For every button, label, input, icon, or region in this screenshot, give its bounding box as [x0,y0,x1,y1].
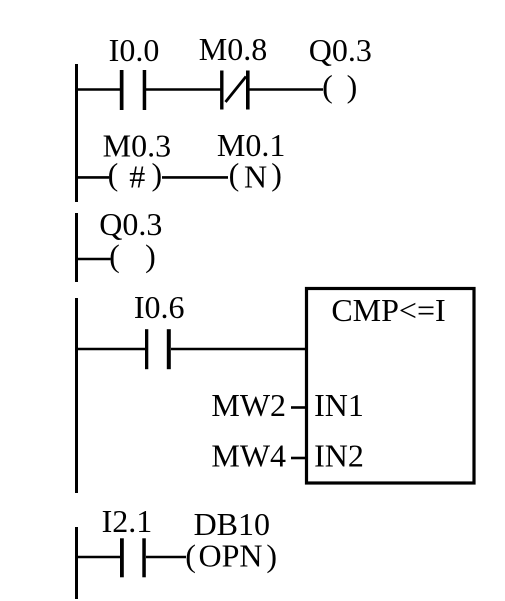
coil DB10 (OPN) [185,537,277,573]
svg-text:IN2: IN2 [314,438,364,474]
label MW2 [211,387,286,423]
wire rung1 rail to contact I0.0 [75,88,120,91]
compare box CMP<=I [307,289,475,484]
svg-text:MW2: MW2 [211,387,286,423]
svg-text:N: N [244,159,267,195]
pin label IN1 [314,387,364,423]
svg-text:#: # [129,159,145,195]
pin label IN2 [314,438,364,474]
label Q0.3 rung3 [99,206,162,242]
label M0.1 [217,127,285,163]
wire rung1 M0.8 to coil Q0.3 [250,88,324,91]
svg-text:Q0.3: Q0.3 [99,206,162,242]
coil M0.1 ( N ) [229,156,282,194]
label MW4 [211,438,286,474]
label M0.8 [199,31,267,67]
left power rail segment 1 [75,64,78,202]
coil M0.3 ( # ) [108,156,162,194]
wire rung5 I2.1 to coil DB10 [146,556,186,559]
contact I0.6 (normally open) [145,329,171,369]
svg-text:): ) [266,537,277,573]
svg-text:(: ( [185,537,196,573]
svg-text:M0.1: M0.1 [217,127,285,163]
svg-text:I0.0: I0.0 [109,32,160,68]
wire rung5 rail to contact I2.1 [75,556,120,559]
label Q0.3 rung1 [309,32,372,68]
svg-text:DB10: DB10 [194,506,270,542]
contact I0.0 (normally open) [120,70,146,110]
svg-text:IN1: IN1 [314,387,364,423]
svg-text:OPN: OPN [198,537,262,573]
coil Q0.3 rung3 parentheses [109,237,156,273]
coil Q0.3 parentheses [322,68,357,104]
contact M0.8 (normally closed) [220,71,250,110]
wire rung2 rail to coil M0.3 [75,176,109,179]
svg-text:(: ( [322,68,333,104]
wire rung4 rail to contact I0.6 [75,348,145,351]
left power rail segment 2 [75,213,78,282]
svg-text:MW4: MW4 [211,438,286,474]
svg-text:): ) [347,68,358,104]
svg-text:I2.1: I2.1 [102,503,153,539]
label I2.1 [102,503,153,539]
label CMP<=I [331,292,445,328]
svg-text:CMP<=I: CMP<=I [331,292,445,328]
svg-text:M0.8: M0.8 [199,31,267,67]
pin wire IN1 [291,406,306,409]
left power rail segment 3 [75,298,78,493]
left power rail segment 4 [75,527,78,599]
label I0.0 [109,32,160,68]
label DB10 [194,506,270,542]
wire rung2 M0.3 to M0.1 [162,176,228,179]
label M0.3 [103,128,171,164]
pin wire IN2 [291,457,306,460]
wire rung3 rail to coil Q0.3 [75,258,111,261]
wire rung1 I0.0 to M0.8 [146,88,221,91]
label I0.6 [134,289,185,325]
wire rung4 I0.6 to compare box [171,348,306,351]
svg-text:(: ( [109,237,120,273]
contact I2.1 (normally open) [120,538,146,577]
svg-text:M0.3: M0.3 [103,128,171,164]
svg-text:I0.6: I0.6 [134,289,185,325]
svg-text:): ) [145,237,156,273]
svg-text:Q0.3: Q0.3 [309,32,372,68]
